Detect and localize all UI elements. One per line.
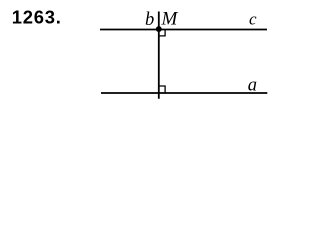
svg-text:M: M: [161, 9, 179, 30]
svg-text:b: b: [145, 10, 154, 30]
svg-text:c: c: [249, 10, 257, 29]
svg-text:a: a: [248, 75, 257, 95]
svg-text:1263.: 1263.: [12, 7, 62, 28]
